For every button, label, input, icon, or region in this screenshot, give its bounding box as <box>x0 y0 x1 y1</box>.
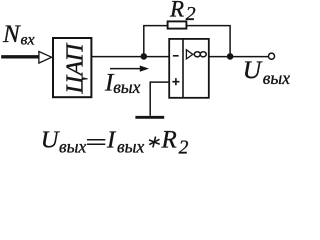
svg-text:вых: вых <box>59 137 86 157</box>
wire feedback top-right horizontal <box>186 25 230 27</box>
svg-text:вх: вх <box>21 32 35 49</box>
svg-text:U: U <box>41 126 61 153</box>
svg-text:вых: вых <box>113 77 140 97</box>
wire feedback left vertical <box>143 26 145 57</box>
svg-text:R: R <box>169 0 184 21</box>
svg-text:вых: вых <box>263 68 290 88</box>
svg-text:U: U <box>243 55 263 84</box>
svg-text:вых: вых <box>117 137 144 157</box>
svg-text:ЦАП: ЦАП <box>62 42 89 94</box>
op-amp minus sign <box>173 55 179 57</box>
formula Uvyx = Ivyx * R2 <box>41 126 189 158</box>
input arrowhead (open triangle) <box>39 52 52 64</box>
wire non-inverting input to ground <box>150 82 169 116</box>
svg-text:R: R <box>161 126 177 153</box>
node junction B (output/feedback) <box>227 53 234 60</box>
node Uvyx label <box>243 55 290 88</box>
resistor R2 label <box>169 0 196 25</box>
svg-text:2: 2 <box>186 3 196 25</box>
DAC block U1 (ЦАП) <box>53 38 91 97</box>
wire feedback top-left horizontal <box>143 25 168 27</box>
ground bar <box>135 116 164 119</box>
svg-text:I: I <box>106 126 117 153</box>
svg-text:N: N <box>2 21 21 48</box>
current label Ivyx <box>104 70 141 98</box>
op-amp gain triangle <box>186 50 192 59</box>
current arrow Ivyx <box>110 66 149 72</box>
op-amp input column divider <box>182 39 184 98</box>
op-amp U2 body <box>169 39 209 98</box>
output terminal circle <box>268 53 274 59</box>
wire input bus <box>1 55 38 58</box>
wire feedback right vertical <box>229 26 231 57</box>
node Nvx label <box>2 21 35 49</box>
wire DAC output to inverting input <box>91 56 169 58</box>
resistor R2 body <box>168 21 187 28</box>
node junction A (feedback tap) <box>141 53 148 60</box>
op-amp plus sign <box>172 78 179 85</box>
svg-text:2: 2 <box>179 137 189 158</box>
wire op-amp output <box>209 56 269 58</box>
op-amp infinity symbol <box>194 52 206 57</box>
